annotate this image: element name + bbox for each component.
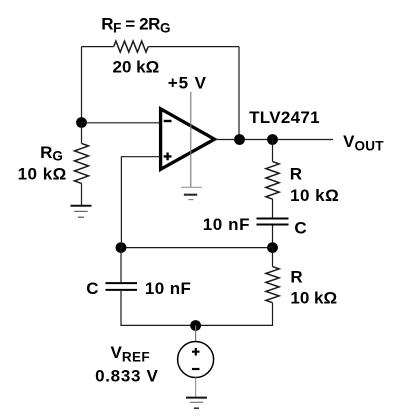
plus sign in source	[192, 348, 200, 356]
svg-text:TLV2471: TLV2471	[249, 108, 320, 127]
wire: middle node left down to capacitor C left	[120, 248, 122, 282]
minus input sign	[164, 120, 172, 122]
wire: RG to ground	[81, 183, 83, 205]
wire: +5V power pin through op-amp	[190, 92, 192, 187]
wire: + input loop	[121, 157, 160, 248]
svg-text:20 kΩ: 20 kΩ	[113, 57, 160, 76]
svg-text:C: C	[294, 218, 306, 237]
node: output junction 1	[234, 134, 245, 145]
resistor R (top right) zigzag	[266, 162, 279, 199]
wire: R bottom to bottom wire	[196, 303, 273, 326]
svg-text:10 kΩ: 10 kΩ	[290, 186, 339, 205]
wire: middle horizontal	[121, 247, 273, 249]
wire: R to capacitor C right	[272, 199, 274, 218]
wire: op-amp output to VOUT	[215, 139, 333, 141]
svg-text:10 kΩ: 10 kΩ	[18, 164, 67, 183]
wire: feedback top-left horizontal	[82, 46, 114, 48]
svg-text:RF = 2RG: RF = 2RG	[101, 15, 170, 36]
node: output junction 2	[267, 134, 278, 145]
wire: node A to inverting input	[82, 122, 161, 124]
minus sign in source	[192, 368, 200, 370]
svg-text:10 kΩ: 10 kΩ	[290, 288, 337, 307]
wire: node A down to RG	[81, 123, 83, 144]
svg-text:10 nF: 10 nF	[145, 279, 191, 298]
wire: middle node right down to R bottom	[272, 248, 274, 267]
op-amp U1 TLV2471	[161, 109, 215, 170]
node: middle left	[116, 242, 127, 253]
ground: VREF	[186, 398, 207, 409]
node A: inverting input junction	[76, 117, 87, 128]
node: middle right	[267, 242, 278, 253]
plus input sign	[164, 153, 172, 161]
svg-text:10 nF: 10 nF	[203, 215, 250, 234]
wire: feedback right vertical	[238, 47, 240, 140]
wire: feedback top-right horizontal	[148, 46, 239, 48]
ground: RG	[71, 206, 92, 217]
capacitor C (left) plates	[106, 283, 138, 290]
wire: capacitor left down and bottom wire	[121, 291, 196, 325]
svg-text:C: C	[86, 279, 98, 298]
node: bottom junction	[190, 320, 201, 331]
ground: op-amp power	[181, 187, 202, 199]
wire: node2 down to R top	[272, 140, 274, 162]
wire: VREF source to ground	[195, 378, 197, 398]
resistor RF zigzag	[114, 41, 149, 52]
capacitor C (right) plates	[257, 219, 289, 225]
resistor RG zigzag	[75, 143, 89, 183]
wire: capacitor to middle node right	[272, 226, 274, 248]
svg-text:0.833 V: 0.833 V	[95, 366, 159, 385]
resistor R (bottom right) zigzag	[266, 267, 279, 303]
svg-text:R: R	[290, 268, 302, 287]
svg-text:R: R	[290, 165, 302, 184]
wire: feedback left vertical	[81, 47, 83, 123]
svg-text:+5 V: +5 V	[168, 73, 207, 92]
wire: bottom node to VREF source	[195, 326, 197, 342]
voltage source VREF circle	[178, 342, 214, 378]
